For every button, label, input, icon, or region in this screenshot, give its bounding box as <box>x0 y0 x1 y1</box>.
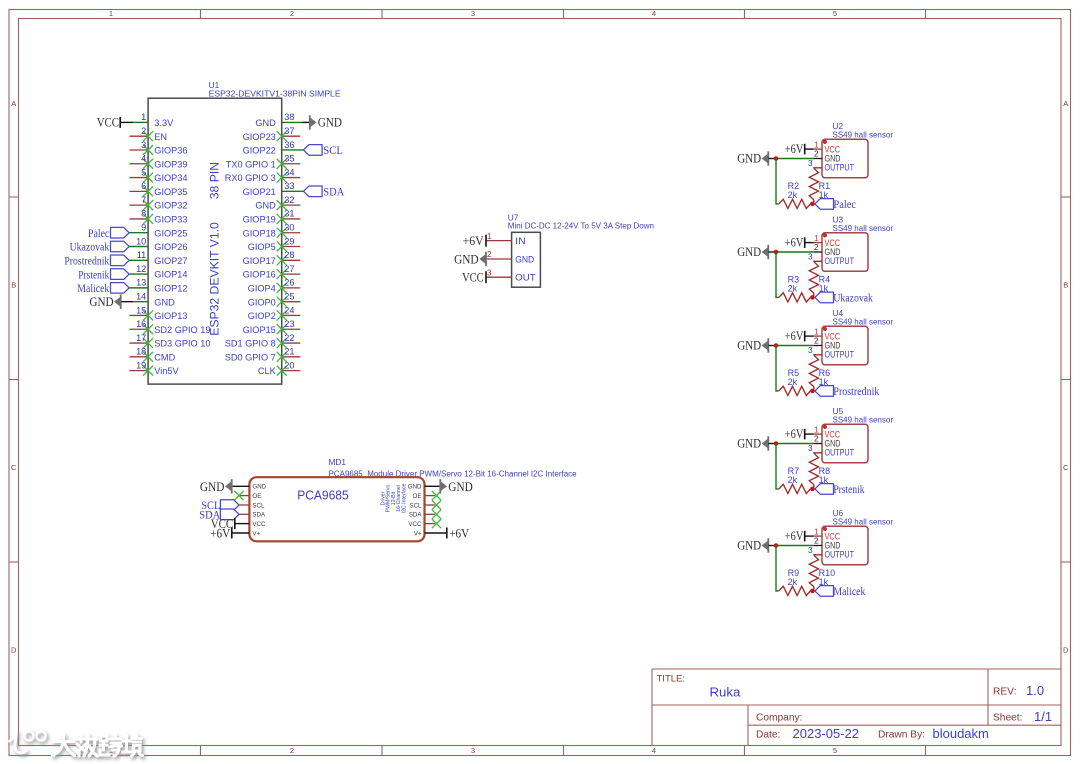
svg-text:Vin5V: Vin5V <box>154 366 179 376</box>
U1 pin 12 GIOP14 <box>129 264 187 280</box>
svg-text:38 PIN: 38 PIN <box>207 162 221 199</box>
svg-text:GIOP0: GIOP0 <box>248 297 276 307</box>
hall sensor U5 body <box>822 424 868 463</box>
svg-text:34: 34 <box>284 167 294 177</box>
MD1 left pin VCC <box>235 521 266 528</box>
wire GND branch down to R9 <box>776 546 779 591</box>
power flag +6V at U6 <box>785 529 814 543</box>
svg-text:GND: GND <box>737 539 761 553</box>
U1 pin 32 GND <box>255 195 300 211</box>
svg-text:+6V: +6V <box>785 329 804 343</box>
U1 pin 3 GIOP36 <box>130 140 188 156</box>
svg-text:SCL: SCL <box>409 502 422 509</box>
U1 pin 36 GIOP22 <box>243 140 304 156</box>
ground symbol at MD1 left GND <box>200 479 232 494</box>
U2 pin 2 GND stub <box>814 150 822 159</box>
U1 pin 29 GIOP5 <box>248 236 301 252</box>
power flag +6V at U7 pin 1 <box>463 233 486 248</box>
svg-text:VCC: VCC <box>462 270 484 285</box>
svg-text:GIOP33: GIOP33 <box>154 215 187 225</box>
svg-text:SDA: SDA <box>323 185 344 199</box>
title block REV field <box>993 683 1044 698</box>
junction at GND branch U6 <box>774 543 779 548</box>
hall sensor U4 reference label <box>833 308 894 326</box>
U6 pin 3 OUTPUT wire to R10 <box>808 546 822 555</box>
svg-text:IN: IN <box>515 236 526 246</box>
svg-text:Prostrednik: Prostrednik <box>833 384 879 398</box>
U1 pin 11 GIOP27 <box>129 250 187 266</box>
MD1 left pin GND <box>232 484 267 491</box>
svg-text:16: 16 <box>136 319 146 329</box>
U1 pin 34 RX0 GPIO 3 <box>225 167 301 183</box>
net flag Prstenik at U1 pin 12 <box>78 267 129 281</box>
svg-text:SDA: SDA <box>409 512 423 519</box>
svg-text:3: 3 <box>808 346 813 355</box>
svg-text:19: 19 <box>136 360 146 370</box>
svg-text:5: 5 <box>141 167 146 177</box>
svg-text:OUTPUT: OUTPUT <box>825 549 855 559</box>
svg-text:13: 13 <box>136 278 146 288</box>
svg-text:A: A <box>11 99 16 108</box>
svg-text:GIOP4: GIOP4 <box>248 283 276 293</box>
svg-text:23: 23 <box>284 319 294 329</box>
svg-text:ESP32-DEVKITV1-38PIN SIMPLE: ESP32-DEVKITV1-38PIN SIMPLE <box>209 88 341 98</box>
svg-text:1: 1 <box>109 9 113 18</box>
junction at R3/R4/Ukazovak <box>810 295 815 300</box>
svg-text:Malicek: Malicek <box>833 584 865 598</box>
svg-text:7: 7 <box>141 195 146 205</box>
wire GND to U3 pin 2 <box>776 251 814 253</box>
svg-text:+6V: +6V <box>210 525 231 540</box>
power flag VCC at U7 pin 3 <box>462 270 486 285</box>
svg-text:3: 3 <box>808 546 813 555</box>
wire GND to U4 pin 2 <box>776 345 814 347</box>
MD1 right pin SDA <box>409 510 441 519</box>
svg-text:GIOP27: GIOP27 <box>154 256 187 266</box>
svg-text:C: C <box>1063 463 1069 472</box>
svg-text:Prstenik: Prstenik <box>78 267 109 281</box>
svg-text:GIOP25: GIOP25 <box>154 228 187 238</box>
resistor R5 2k <box>779 368 811 395</box>
svg-text:SS49 hall sensor: SS49 hall sensor <box>833 415 894 424</box>
svg-text:GND: GND <box>737 339 761 353</box>
net flag Malicek at U1 pin 13 <box>77 281 129 295</box>
svg-text:GND: GND <box>154 297 175 307</box>
svg-text:29: 29 <box>284 236 294 246</box>
power flag +6V at U4 <box>785 329 814 343</box>
ground symbol at U4 <box>737 338 768 352</box>
svg-text:GND: GND <box>454 252 479 267</box>
resistor R4 1k <box>809 262 830 298</box>
svg-text:A: A <box>1063 99 1068 108</box>
svg-text:GND: GND <box>448 479 473 494</box>
svg-text:4: 4 <box>652 746 656 755</box>
svg-text:VCC: VCC <box>97 115 119 130</box>
U3 pin 3 OUTPUT wire to R4 <box>808 253 822 262</box>
U1 pin 16 SD2 GPIO 19 <box>130 319 211 335</box>
svg-text:Company:: Company: <box>756 713 802 724</box>
svg-text:+6V: +6V <box>785 529 804 543</box>
svg-text:GND: GND <box>252 484 266 491</box>
U1 pin 19 Vin5V <box>130 360 180 376</box>
svg-text:36: 36 <box>284 140 294 150</box>
svg-text:22: 22 <box>284 333 294 343</box>
power flag VCC at MD1 <box>211 516 235 531</box>
module MD1 reference label <box>329 457 578 478</box>
resistor R10 1k <box>809 555 835 591</box>
hall sensor U3 body <box>822 233 868 271</box>
svg-text:6: 6 <box>141 181 146 191</box>
ground symbol at U6 <box>737 538 768 552</box>
hall sensor U4 body <box>822 326 868 365</box>
IC U1 ESP32-DEVKITV1-38PIN reference label <box>209 80 341 98</box>
ground symbol at U1 pin 14 <box>89 294 120 309</box>
U5 pin 2 GND stub <box>814 435 822 444</box>
svg-text:2k: 2k <box>788 284 798 294</box>
U1 pin 33 GIOP21 <box>243 181 304 197</box>
module U7 reference label <box>508 213 654 231</box>
svg-text:2: 2 <box>487 250 492 259</box>
power flag +6V at U3 <box>785 236 814 250</box>
MD1 left pin SDA <box>239 512 266 519</box>
svg-text:SD3 GPIO 10: SD3 GPIO 10 <box>154 339 210 349</box>
svg-text:MD1: MD1 <box>329 457 347 467</box>
junction at GND branch U3 <box>774 250 779 255</box>
U1 pin 24 GIOP2 <box>248 305 301 321</box>
U5 pin 1 VCC stub <box>814 425 822 434</box>
svg-text:Ukazovak: Ukazovak <box>833 291 873 305</box>
net flag Ukazovak at U3 <box>815 291 873 305</box>
net flag SDA at U1 pin 33 <box>304 185 345 199</box>
svg-text:GND: GND <box>515 254 534 264</box>
svg-text:2: 2 <box>814 537 819 546</box>
svg-text:SCL: SCL <box>252 502 265 509</box>
U1 pin 30 GIOP18 <box>243 223 301 239</box>
MD1 left pin SCL <box>239 502 265 509</box>
ground symbol at U2 <box>737 151 768 165</box>
svg-text:27: 27 <box>284 264 294 274</box>
svg-text:OE: OE <box>413 493 422 500</box>
svg-text:Ukazovak: Ukazovak <box>70 240 110 254</box>
svg-text:20: 20 <box>284 360 294 370</box>
svg-text:GND: GND <box>408 484 422 491</box>
svg-text:21: 21 <box>284 347 294 357</box>
svg-text:SCL: SCL <box>323 143 343 157</box>
svg-text:+6V: +6V <box>449 525 470 540</box>
power flag VCC at U1 pin 1 <box>97 115 121 130</box>
svg-text:GND: GND <box>737 437 761 451</box>
net flag Prostrednik at U4 <box>815 384 880 398</box>
resistor R2 2k <box>779 181 811 208</box>
svg-text:32: 32 <box>284 195 294 205</box>
svg-text:V+: V+ <box>414 530 422 537</box>
U1 pin 37 GIOP23 <box>243 126 301 142</box>
U1 pin 25 GIOP0 <box>248 291 301 307</box>
svg-text:GIOP26: GIOP26 <box>154 242 187 252</box>
resistor R1 1k <box>809 168 830 204</box>
svg-text:TITLE:: TITLE: <box>657 674 686 685</box>
hall sensor U5 reference label <box>833 406 894 424</box>
svg-text:3: 3 <box>808 159 813 168</box>
svg-text:SD1 GPIO 8: SD1 GPIO 8 <box>225 339 276 349</box>
svg-text:Mini DC-DC 12-24V To 5V 3A Ste: Mini DC-DC 12-24V To 5V 3A Step Down <box>508 222 654 231</box>
U1 pin 6 GIOP35 <box>130 181 188 197</box>
svg-text:Palec: Palec <box>833 197 856 211</box>
svg-text:bloudakm: bloudakm <box>933 726 989 741</box>
junction at GND branch U2 <box>774 156 779 161</box>
svg-text:CLK: CLK <box>258 366 277 376</box>
svg-text:2: 2 <box>290 9 294 18</box>
resistor R9 2k <box>779 568 811 595</box>
svg-text:37: 37 <box>284 126 294 136</box>
svg-text:38: 38 <box>284 112 294 122</box>
MD1 right pin VCC <box>408 519 441 528</box>
module MD1 PCA9685 body <box>249 477 424 541</box>
IC U1 ESP32 body <box>148 98 282 384</box>
svg-text:GND: GND <box>200 479 225 494</box>
svg-text:1: 1 <box>814 425 819 434</box>
title block Sheet field <box>993 709 1052 724</box>
U1 pin 21 SD0 GPIO 7 <box>225 347 301 363</box>
svg-text:GND: GND <box>318 115 342 130</box>
U5 pin 3 OUTPUT wire to R8 <box>808 444 822 453</box>
svg-text:1: 1 <box>814 140 819 149</box>
svg-text:2k: 2k <box>788 190 798 200</box>
junction at GND branch U5 <box>774 441 779 446</box>
svg-text:V+: V+ <box>252 530 260 537</box>
svg-text:3.3V: 3.3V <box>154 118 174 128</box>
svg-text:26: 26 <box>284 278 294 288</box>
svg-text:GIOP21: GIOP21 <box>243 187 276 197</box>
U1 pin 22 SD1 GPIO 8 <box>225 333 301 349</box>
svg-text:2: 2 <box>814 337 819 346</box>
net flag SCL at MD1 <box>201 498 239 512</box>
svg-text:11: 11 <box>137 250 147 260</box>
power flag +6V at U2 <box>785 142 814 156</box>
svg-text:14: 14 <box>136 291 146 301</box>
svg-text:SDA: SDA <box>252 512 266 519</box>
svg-text:30: 30 <box>284 223 294 233</box>
U1 pin 26 GIOP4 <box>248 278 301 294</box>
svg-text:B: B <box>1063 281 1068 290</box>
svg-text:Prstenik: Prstenik <box>833 482 864 496</box>
wire GND to U6 pin 2 <box>776 545 814 547</box>
MD1 inner vertical description text <box>381 484 408 514</box>
U7 pin 2 GND <box>486 250 534 264</box>
svg-text:GIOP2: GIOP2 <box>248 311 276 321</box>
MD1 right pin V+ <box>414 530 447 537</box>
svg-text:GIOP16: GIOP16 <box>243 270 276 280</box>
svg-text:Palec: Palec <box>88 226 109 240</box>
U1 pin 2 EN <box>130 126 168 142</box>
U3 pin 1 VCC stub <box>814 234 822 243</box>
svg-text:Date:: Date: <box>756 730 780 741</box>
U1 pin 17 SD3 GPIO 10 <box>130 333 211 349</box>
svg-text:GND: GND <box>89 294 113 309</box>
title block TITLE field <box>657 674 741 700</box>
svg-text:2: 2 <box>290 746 294 755</box>
U1 pin 8 GIOP33 <box>130 209 188 225</box>
svg-text:1: 1 <box>814 327 819 336</box>
svg-text:GIOP13: GIOP13 <box>154 311 187 321</box>
svg-text:2k: 2k <box>788 475 798 485</box>
U1 pin 14 GND <box>121 291 175 307</box>
MD1 right pin GND <box>408 484 441 491</box>
svg-text:18: 18 <box>136 347 146 357</box>
svg-text:Malicek: Malicek <box>77 281 109 295</box>
svg-text:Ruka: Ruka <box>710 685 741 700</box>
net flag Malicek at U6 <box>815 584 866 598</box>
junction at R9/R10/Malicek <box>810 589 815 594</box>
svg-text:GND: GND <box>255 201 276 211</box>
svg-text:OUTPUT: OUTPUT <box>825 447 855 457</box>
power flag +6V at MD1 left V+ <box>210 525 232 540</box>
svg-text:3: 3 <box>808 444 813 453</box>
svg-text:REV:: REV: <box>993 687 1016 698</box>
svg-text:OE: OE <box>252 493 261 500</box>
svg-text:3: 3 <box>487 268 492 277</box>
svg-text:Drawn By:: Drawn By: <box>878 730 925 741</box>
svg-text:SD0 GPIO 7: SD0 GPIO 7 <box>225 352 276 362</box>
wire GND to U5 pin 2 <box>776 443 814 445</box>
wire GND branch down to R3 <box>776 252 779 297</box>
svg-text:OUTPUT: OUTPUT <box>825 349 855 359</box>
resistor R6 1k <box>809 355 830 391</box>
net flag Ukazovak at U1 pin 10 <box>70 240 130 254</box>
resistor R3 2k <box>779 275 811 302</box>
svg-text:GIOP12: GIOP12 <box>154 283 187 293</box>
svg-text:EN: EN <box>154 132 167 142</box>
ground symbol at U5 <box>737 436 768 450</box>
svg-text:RX0 GPIO 3: RX0 GPIO 3 <box>225 173 276 183</box>
wire GND branch down to R7 <box>776 444 779 489</box>
net flag SCL at U1 pin 36 <box>304 143 344 157</box>
svg-text:31: 31 <box>284 209 294 219</box>
svg-text:35: 35 <box>284 154 294 164</box>
MD1 right pin SCL <box>409 500 441 509</box>
svg-text:TX0 GPIO 1: TX0 GPIO 1 <box>226 159 276 169</box>
hall sensor U2 body <box>822 139 868 178</box>
wire GND branch down to R5 <box>776 346 779 391</box>
svg-text:C: C <box>11 463 17 472</box>
resistor R8 1k <box>809 453 830 489</box>
svg-text:5: 5 <box>833 746 837 755</box>
svg-text:2k: 2k <box>788 577 798 587</box>
svg-text:4: 4 <box>141 154 146 164</box>
U7 pin 3 OUT <box>486 268 536 282</box>
svg-text:GIOP35: GIOP35 <box>154 187 187 197</box>
wire GND to U2 pin 2 <box>776 158 814 160</box>
svg-text:25: 25 <box>284 291 294 301</box>
U1 pin 38 GND <box>255 112 309 128</box>
U4 pin 1 VCC stub <box>814 327 822 336</box>
net flag Palec at U1 pin 9 <box>88 226 129 240</box>
U1 pin 15 GIOP13 <box>130 305 188 321</box>
svg-text:2k: 2k <box>788 377 798 387</box>
svg-text:GIOP36: GIOP36 <box>154 146 187 156</box>
svg-text:GIOP5: GIOP5 <box>248 242 276 252</box>
svg-text:GIOP22: GIOP22 <box>243 146 276 156</box>
U1 pin 18 CMD <box>130 347 176 363</box>
U2 pin 1 VCC stub <box>814 140 822 149</box>
svg-text:GND: GND <box>737 152 761 166</box>
U4 pin 2 GND stub <box>814 337 822 346</box>
svg-text:24: 24 <box>284 305 294 315</box>
svg-text:OUTPUT: OUTPUT <box>825 162 855 172</box>
U1 pin 31 GIOP19 <box>243 209 301 225</box>
net flag Prostrednik at U1 pin 11 <box>64 254 129 268</box>
svg-text:VCC: VCC <box>408 521 422 528</box>
svg-text:GIOP34: GIOP34 <box>154 173 187 183</box>
svg-text:12: 12 <box>136 264 146 274</box>
svg-text:+6V: +6V <box>463 233 485 248</box>
junction at R7/R8/Prstenik <box>810 487 815 492</box>
svg-text:3: 3 <box>471 746 475 755</box>
MD1 left pin OE <box>234 491 261 500</box>
resistor R7 2k <box>779 466 811 493</box>
U1 pin 20 CLK <box>258 360 300 376</box>
net flag SDA at MD1 <box>199 508 239 522</box>
svg-text:GIOP18: GIOP18 <box>243 228 276 238</box>
U4 pin 3 OUTPUT wire to R6 <box>808 346 822 355</box>
svg-text:3: 3 <box>808 253 813 262</box>
junction at R5/R6/Prostrednik <box>810 389 815 394</box>
svg-text:B: B <box>11 281 16 290</box>
svg-text:8: 8 <box>141 209 146 219</box>
svg-text:GIOP14: GIOP14 <box>154 270 187 280</box>
ground symbol at MD1 right GND <box>440 479 473 494</box>
svg-text:Sheet:: Sheet: <box>993 713 1022 724</box>
U7 pin 1 IN <box>486 232 526 246</box>
junction at GND branch U4 <box>774 343 779 348</box>
svg-text:1: 1 <box>487 232 492 241</box>
U1 pin 35 TX0 GPIO 1 <box>226 154 301 170</box>
svg-text:1: 1 <box>814 234 819 243</box>
svg-text:GIOP15: GIOP15 <box>243 325 276 335</box>
svg-text:CMD: CMD <box>154 352 175 362</box>
svg-text:OUT: OUT <box>515 273 536 283</box>
svg-text:ESP32 DEVKIT V1.0: ESP32 DEVKIT V1.0 <box>207 222 221 336</box>
svg-text:2023-05-22: 2023-05-22 <box>793 726 860 741</box>
svg-text:2: 2 <box>141 126 146 136</box>
svg-text:+6V: +6V <box>785 427 804 441</box>
svg-text:28: 28 <box>284 250 294 260</box>
hall sensor U6 body <box>822 526 868 565</box>
svg-text:GIOP39: GIOP39 <box>154 159 187 169</box>
junction at R2/R1/Palec <box>810 202 815 207</box>
svg-text:GIOP19: GIOP19 <box>243 215 276 225</box>
svg-text:SS49 hall sensor: SS49 hall sensor <box>833 317 894 326</box>
svg-text:3: 3 <box>141 140 146 150</box>
net flag Prstenik at U5 <box>815 482 865 496</box>
svg-text:GIOP32: GIOP32 <box>154 201 187 211</box>
svg-text:SS49 hall sensor: SS49 hall sensor <box>833 130 894 139</box>
U2 pin 3 OUTPUT wire to R1 <box>808 159 822 168</box>
svg-text:17: 17 <box>136 333 146 343</box>
U1 pin 10 GIOP26 <box>129 236 187 252</box>
svg-text:4: 4 <box>652 9 656 18</box>
U1 pin 27 GIOP16 <box>243 264 301 280</box>
svg-text:2: 2 <box>814 243 819 252</box>
MD1 right pin OE <box>413 491 442 500</box>
power flag +6V at MD1 right V+ <box>447 525 470 540</box>
svg-text:+6V: +6V <box>785 142 804 156</box>
power flag +6V at U5 <box>785 427 814 441</box>
U1 pin 1 3.3V <box>120 112 174 128</box>
module U7 body <box>512 232 541 287</box>
title block Date field <box>756 726 989 741</box>
ground symbol at U1 pin 38 <box>310 115 342 130</box>
